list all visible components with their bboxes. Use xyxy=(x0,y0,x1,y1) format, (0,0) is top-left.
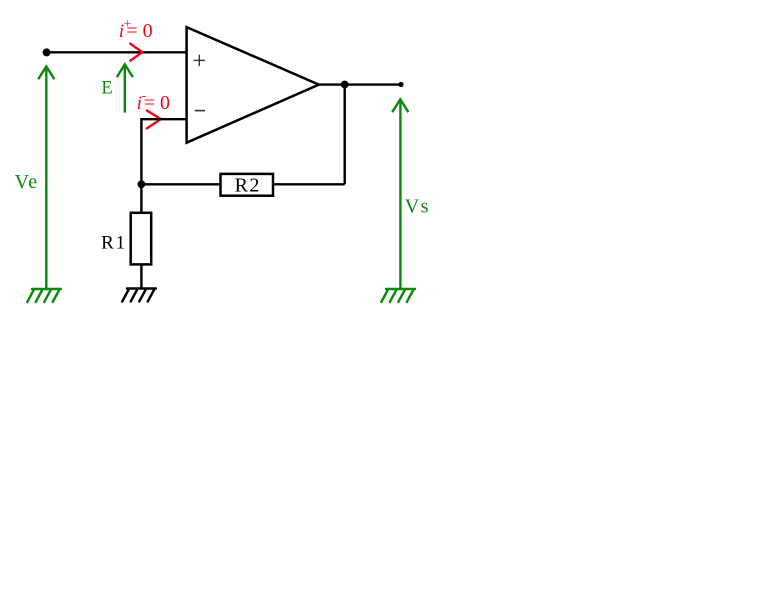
ground (green, left) xyxy=(27,289,61,302)
svg-text:Vs: Vs xyxy=(405,195,430,217)
node output junction xyxy=(341,81,349,89)
node feedback junction xyxy=(138,180,146,188)
label i- = 0 xyxy=(137,88,170,114)
svg-text:R2: R2 xyxy=(235,175,261,197)
wire R1 top xyxy=(140,184,142,213)
ground (green, right) xyxy=(381,289,415,302)
wire output xyxy=(319,83,401,85)
arrow Ve xyxy=(38,67,54,289)
node output end xyxy=(398,82,403,87)
op-amp U1 xyxy=(187,27,319,143)
wire R1 bottom xyxy=(140,264,142,288)
red current arrow i+ xyxy=(130,44,142,61)
resistor R2 xyxy=(221,174,274,196)
wire - input xyxy=(141,119,186,184)
svg-text:R1: R1 xyxy=(101,232,127,253)
arrow Vs xyxy=(392,99,408,288)
wire R2 right xyxy=(273,183,345,185)
wire feedback vertical xyxy=(344,85,346,185)
red current arrow i- xyxy=(147,111,161,129)
svg-text:Ve: Ve xyxy=(15,171,39,193)
ground (black) xyxy=(122,289,156,302)
node input dot xyxy=(43,48,51,56)
svg-text:E: E xyxy=(101,79,112,99)
svg-text:= 0: = 0 xyxy=(144,92,170,114)
svg-text:= 0: = 0 xyxy=(126,20,152,42)
label i+ = 0 xyxy=(119,16,153,43)
wire + input xyxy=(47,51,187,53)
green arrow E xyxy=(117,64,133,112)
wire R2 left xyxy=(141,183,220,185)
pin - label xyxy=(195,110,205,112)
pin + label xyxy=(194,55,205,66)
resistor R1 xyxy=(131,213,152,265)
